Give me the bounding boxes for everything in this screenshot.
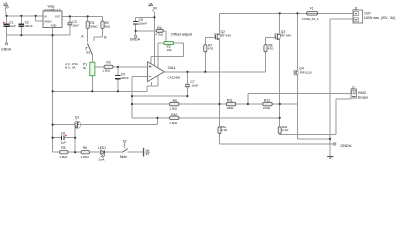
svg-text:1.5kΩ: 1.5kΩ <box>102 68 111 72</box>
svg-text:5k: 5k <box>83 66 87 70</box>
svg-text:CA3140E: CA3140E <box>168 76 181 80</box>
svg-text:R5: R5 <box>61 146 65 150</box>
svg-text:1.5kΩ: 1.5kΩ <box>169 106 178 110</box>
svg-text:OUT: OUT <box>364 12 371 16</box>
svg-text:100nF: 100nF <box>24 24 33 28</box>
svg-text:C6: C6 <box>61 131 65 135</box>
svg-text:IRF 540: IRF 540 <box>220 33 231 37</box>
svg-text:LED1: LED1 <box>98 146 106 150</box>
svg-text:100nF: 100nF <box>139 21 148 25</box>
svg-text:1.8kΩ: 1.8kΩ <box>81 155 90 159</box>
svg-text:1µF: 1µF <box>61 141 66 145</box>
svg-text:R11: R11 <box>227 99 233 103</box>
svg-text:LTC6652 2.5: LTC6652 2.5 <box>44 8 61 12</box>
svg-text:S1: S1 <box>86 51 90 55</box>
svg-text:100Ω: 100Ω <box>226 106 234 110</box>
svg-text:FUSE_5A_F: FUSE_5A_F <box>302 17 319 21</box>
svg-text:R9: R9 <box>173 99 177 103</box>
svg-text:10µF: 10µF <box>9 24 16 28</box>
svg-text:F1: F1 <box>310 7 314 11</box>
svg-text:100W max. (20V - 5A): 100W max. (20V - 5A) <box>364 16 396 20</box>
svg-text:10nF: 10nF <box>191 84 198 88</box>
svg-text:S2: S2 <box>123 140 127 144</box>
svg-text:R6: R6 <box>83 146 87 150</box>
svg-text:IRFU110: IRFU110 <box>300 71 312 75</box>
svg-text:Q1: Q1 <box>75 115 80 119</box>
svg-text:100Ω: 100Ω <box>263 106 271 110</box>
svg-text:1.5kΩ: 1.5kΩ <box>169 121 178 125</box>
svg-text:J1: J1 <box>354 7 358 11</box>
svg-text:SHDN: SHDN <box>44 21 51 24</box>
svg-text:99kΩ: 99kΩ <box>90 24 98 28</box>
svg-text:R12: R12 <box>264 99 270 103</box>
svg-text:IN: IN <box>44 16 47 19</box>
svg-text:2mA: 2mA <box>98 157 104 161</box>
svg-text:GNDA: GNDA <box>130 37 141 41</box>
svg-text:0.1Ω: 0.1Ω <box>221 128 228 132</box>
svg-text:Scope: Scope <box>358 95 369 99</box>
svg-text:9kΩ: 9kΩ <box>105 24 111 28</box>
svg-text:B 0...5A: B 0...5A <box>65 66 75 70</box>
svg-text:Mute: Mute <box>120 155 127 159</box>
svg-text:100nF: 100nF <box>120 76 129 80</box>
svg-text:OUT: OUT <box>55 16 61 19</box>
svg-text:R4: R4 <box>157 26 161 30</box>
svg-text:9V: 9V <box>146 152 150 156</box>
svg-text:10nF: 10nF <box>72 23 79 27</box>
svg-text:47Ω: 47Ω <box>208 47 214 51</box>
svg-text:GNDA: GNDA <box>1 48 12 52</box>
svg-text:4.7kΩ: 4.7kΩ <box>155 32 164 36</box>
svg-text:GND: GND <box>51 25 57 28</box>
svg-text:GNDA: GNDA <box>340 143 352 148</box>
svg-text:R10: R10 <box>171 113 177 117</box>
svg-text:J2: J2 <box>351 86 355 90</box>
svg-text:Offset adjust: Offset adjust <box>171 33 193 37</box>
svg-text:OA1: OA1 <box>168 65 177 70</box>
svg-text:10k: 10k <box>167 48 172 52</box>
svg-text:IRF 540: IRF 540 <box>280 33 291 37</box>
svg-text:0.1Ω: 0.1Ω <box>282 128 289 132</box>
svg-text:1.8kΩ: 1.8kΩ <box>59 155 68 159</box>
svg-text:47Ω: 47Ω <box>268 47 274 51</box>
svg-text:R3: R3 <box>106 61 110 65</box>
